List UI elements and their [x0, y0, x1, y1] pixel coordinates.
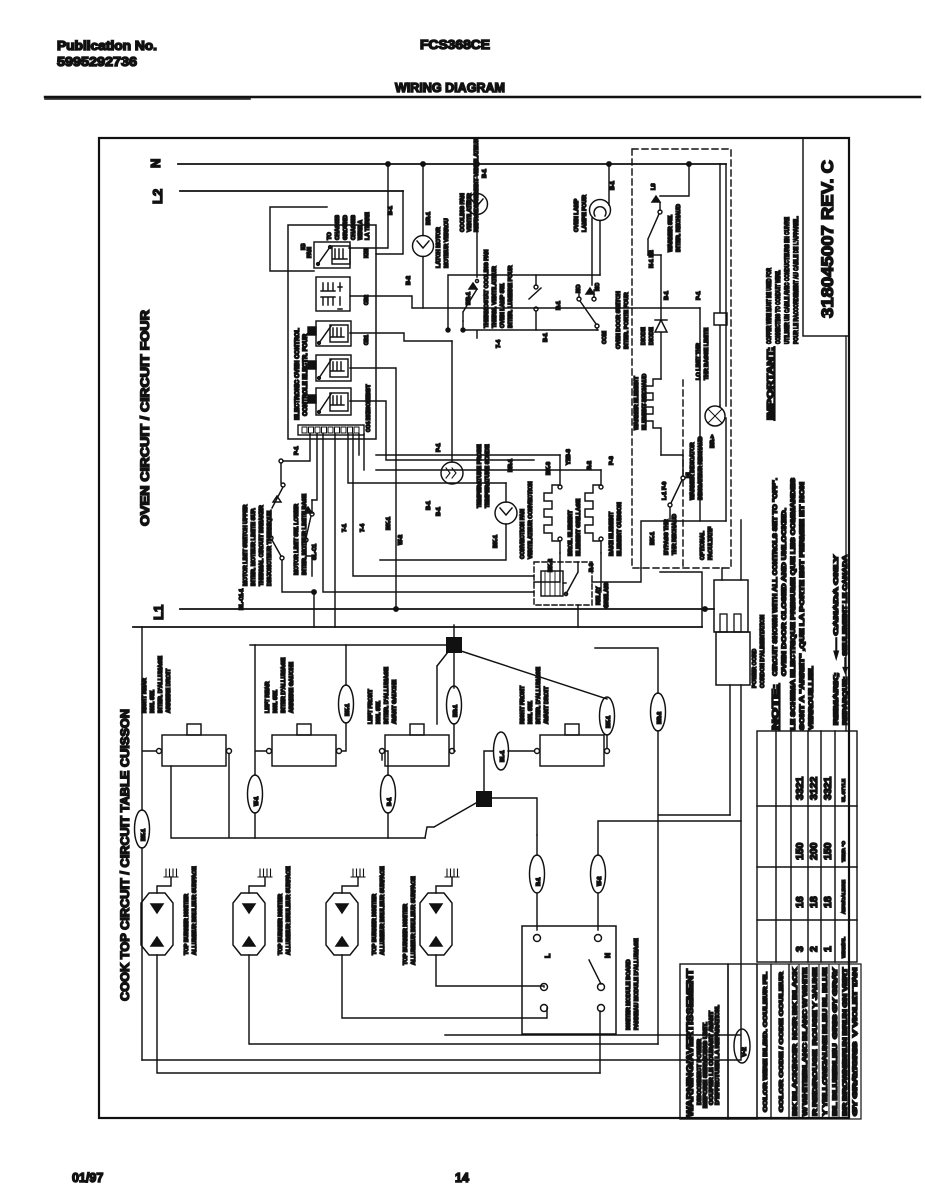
label: THERMOSTAT COOLING FAN [466, 250, 514, 328]
wire: BR-2 legs [595, 648, 730, 1044]
svg-text:✱RELAIS: ✱RELAIS [603, 583, 610, 608]
svg-text:CHASSIS: CHASSIS [335, 215, 341, 240]
svg-text:BL-1: BL-1 [500, 750, 506, 762]
svg-text:DIODE: DIODE [649, 327, 655, 345]
label: WARMER INDICATOR [690, 434, 716, 500]
svg-text:TEMPERATURE PROBE: TEMPERATURE PROBE [477, 444, 483, 508]
svg-text:CONNECTING TO CONDUIT WIRE.: CONNECTING TO CONDUIT WIRE. [775, 270, 782, 344]
svg-text:TOP BURNER IGNITER: TOP BURNER IGNITER [372, 894, 378, 955]
relay K3 in control [308, 355, 351, 381]
svg-text:P-1: P-1 [294, 446, 300, 455]
lo limit thermostat S5 [714, 164, 727, 406]
svg-text:01/97: 01/97 [72, 1171, 103, 1185]
svg-text:WIRING DIAGRAM: WIRING DIAGRAM [395, 80, 505, 95]
svg-text:OVEN DOOR SWITCH: OVEN DOOR SWITCH [616, 291, 622, 349]
oval tag BK-1 riser [339, 685, 354, 723]
electronic oven control U1 box [288, 225, 376, 439]
label: RELAY [596, 583, 610, 608]
svg-text:THERMAL CIRCUIT BREAKER: THERMAL CIRCUIT BREAKER [259, 505, 265, 586]
svg-text:ELEMENT RECHAUD: ELEMENT RECHAUD [642, 374, 648, 430]
svg-text:K3B: K3B [364, 248, 370, 258]
color code header cols [757, 964, 789, 1119]
wire: square B connections [425, 798, 537, 838]
svg-text:N: N [148, 159, 163, 168]
svg-text:P-1: P-1 [436, 443, 442, 452]
svg-text:BL-C1-1: BL-C1-1 [239, 589, 245, 610]
wire: N bus line [178, 163, 726, 165]
svg-text:INTER. D'ALLUMAGE: INTER. D'ALLUMAGE [536, 667, 542, 724]
convection fan M3 [380, 483, 517, 560]
svg-text:BK-1: BK-1 [493, 535, 499, 548]
svg-text:TEMPERATURE SONDE: TEMPERATURE SONDE [485, 444, 491, 508]
svg-text:REMARK; ◄— CANADA ONLY: REMARK; ◄— CANADA ONLY [833, 554, 840, 725]
wire: power cord left drop [729, 685, 731, 815]
svg-text:COLOR WIRE BL/BD. COULEUR FIL: COLOR WIRE BL/BD. COULEUR FIL [763, 971, 769, 1112]
border inner doubling line [845, 336, 847, 731]
svg-text:INTER. MOTEUR LIMITE BASE: INTER. MOTEUR LIMITE BASE [302, 494, 308, 575]
svg-text:SL-C1: SL-C1 [312, 544, 318, 560]
oval tag W-2 module N [591, 855, 606, 893]
svg-text:L8: L8 [651, 183, 657, 190]
wire: s12 right leg [454, 724, 455, 751]
svg-text:14: 14 [455, 1171, 469, 1185]
svg-text:IGNITER MODULE BOARD: IGNITER MODULE BOARD [626, 959, 632, 1030]
wire: lamp left drop [591, 218, 593, 275]
svg-text:LO LIMIT THR: LO LIMIT THR [696, 343, 702, 380]
oven door switch S3 [577, 285, 599, 330]
svg-text:CONVECTION FAN: CONVECTION FAN [520, 509, 526, 559]
svg-text:BK-1: BK-1 [345, 704, 351, 716]
diode D1 [648, 255, 667, 379]
wire: bake feed [376, 469, 601, 471]
label: MOTOR LIMIT SW LOWER [294, 494, 318, 575]
oval tag BK-1 s13 right [600, 697, 615, 735]
wire: K2 out to probe [350, 333, 452, 341]
wire: square A drop to oval [453, 653, 455, 688]
svg-text:RIGHT FRONT: RIGHT FRONT [520, 685, 526, 724]
label: WARMER ELEMENT [634, 374, 648, 430]
control board pin labels [301, 243, 372, 432]
label: LATCH MOTOR [426, 212, 450, 268]
oval tag W-1 s11 [248, 775, 263, 813]
color code table grid [789, 964, 861, 1119]
svg-text:LAMPE FOUR: LAMPE FOUR [582, 195, 588, 232]
svg-text:RIGHT REAR: RIGHT REAR [142, 678, 148, 713]
label: LEFT FRONT IGN SW [368, 667, 398, 724]
junction dot N/lamp [607, 162, 611, 166]
svg-text:150: 150 [822, 842, 834, 860]
svg-text:B-1: B-1 [436, 507, 442, 516]
wire: s10 left leg [142, 627, 156, 1060]
svg-text:ALLUMEUR BRULEUR SURFACE: ALLUMEUR BRULEUR SURFACE [411, 876, 417, 965]
svg-text:OVEN LAMP SW.: OVEN LAMP SW. [500, 283, 506, 328]
junction dot N/latch [421, 162, 425, 166]
svg-text:BR BROWN/BRUN BRUN GN VERT: BR BROWN/BRUN BRUN GN VERT [842, 966, 849, 1116]
svg-text:IGN. SW.: IGN. SW. [150, 689, 156, 713]
svg-text:OPTIONAL: OPTIONAL [700, 531, 706, 560]
svg-text:COOK TOP CIRCUIT / CIRCUIT TAB: COOK TOP CIRCUIT / CIRCUIT TABLE CUISSON [118, 709, 132, 1001]
svg-text:BK-1: BK-1 [606, 716, 612, 728]
svg-text:2: 2 [808, 946, 820, 952]
svg-text:OVEN CIRCUIT / CIRCUIT FOUR: OVEN CIRCUIT / CIRCUIT FOUR [138, 310, 152, 526]
svg-text:3321: 3321 [822, 776, 834, 800]
svg-text:BK-3: BK-3 [546, 462, 552, 475]
svg-text:HI: HI [686, 472, 692, 478]
svg-text:CHASSIS: CHASSIS [351, 215, 357, 240]
svg-text:LEFT FRONT: LEFT FRONT [368, 689, 374, 724]
svg-text:POUR LE RACCORDEMENT AU CABLE: POUR LE RACCORDEMENT AU CABLE DE L'APPAR… [793, 216, 800, 344]
svg-text:AVANT DROIT: AVANT DROIT [544, 686, 550, 724]
chassis ground E3 [351, 869, 365, 877]
svg-text:BK-1: BK-1 [650, 532, 656, 545]
svg-text:INTER. D'ALLUMAGE: INTER. D'ALLUMAGE [158, 656, 164, 713]
svg-text:OC4 BKESONUOGT: OC4 BKESONUOGT [366, 384, 372, 432]
junction dot N/fan [475, 162, 479, 166]
svg-text:K8: K8 [301, 243, 307, 250]
wire: door sw drop [448, 275, 536, 330]
svg-text:3321: 3321 [794, 776, 806, 800]
junction dot row330 [461, 328, 465, 332]
svg-text:Y YELLOW/JAUNE BLEU BL BLUE: Y YELLOW/JAUNE BLEU BL BLUE [822, 967, 829, 1116]
color code table entries [792, 966, 859, 1116]
wire: L2 bus line [180, 190, 403, 192]
svg-text:IGN. SW.: IGN. SW. [273, 689, 279, 713]
svg-text:VENTILATEUR CONVECTION: VENTILATEUR CONVECTION [528, 481, 534, 559]
svg-text:COLOR CODE / CODE COULEUR: COLOR CODE / CODE COULEUR [779, 971, 785, 1112]
label: RIGHT REAR IGN SW [142, 656, 172, 713]
wire table numbers col1 [794, 776, 834, 952]
junction dot L1 right [703, 607, 707, 611]
igniter E4 [420, 877, 452, 955]
svg-text:IMPORTANT:: IMPORTANT: [765, 347, 775, 420]
svg-text:BK-1: BK-1 [386, 517, 392, 530]
junction dot N/warmer [687, 162, 691, 166]
wire: square A riser [453, 625, 455, 637]
label: IMPORTANT note block [765, 216, 800, 420]
svg-text:WIRE/FIL: WIRE/FIL [841, 937, 847, 958]
svg-text:CB1: CB1 [364, 335, 370, 345]
chassis ground E2 [258, 869, 272, 877]
relay K1 in control [307, 242, 350, 268]
connector strip P1 of control [298, 425, 364, 435]
svg-text:WARMER SW.: WARMER SW. [668, 214, 674, 252]
svg-text:INTER. MOTEUR LIMITE SUP.: INTER. MOTEUR LIMITE SUP. [251, 508, 257, 586]
wire gauge table [757, 731, 857, 962]
svg-text:B-2: B-2 [406, 276, 412, 285]
svg-text:ARRIERE GAUCHE: ARRIERE GAUCHE [289, 662, 295, 713]
svg-text:B-1: B-1 [543, 333, 549, 342]
svg-text:THERMOSTAT COOLING FAN: THERMOSTAT COOLING FAN [484, 250, 490, 328]
power cord connector [714, 520, 750, 685]
warmer switch S4 [648, 164, 689, 255]
svg-text:DIODE: DIODE [641, 327, 647, 345]
svg-text:18: 18 [822, 896, 834, 908]
thermostat switch S1 cooling fan [463, 280, 479, 322]
svg-text:7-4: 7-4 [496, 339, 502, 348]
motor limit switches block [269, 459, 316, 627]
svg-text:SONT A "ARRET" ,QUE LA PORTE E: SONT A "ARRET" ,QUE LA PORTE EST FERMEE … [799, 481, 806, 730]
oval tag B-1 s12 [381, 775, 396, 813]
svg-text:TOP BURNER IGNITER: TOP BURNER IGNITER [184, 894, 190, 955]
svg-text:GROUND: GROUND [343, 215, 349, 240]
wire: s11 left leg [255, 645, 266, 838]
label: BAKE ELEMENT [587, 461, 623, 572]
svg-text:V-2: V-2 [741, 1047, 748, 1057]
svg-text:B-1: B-1 [664, 291, 670, 300]
svg-text:REFROIDISSEMENT VENTILATEUR: REFROIDISSEMENT VENTILATEUR [474, 138, 480, 232]
label: MOTOR LIMIT SWITCH UPPER [239, 446, 300, 610]
V-2 cell [728, 964, 757, 1119]
svg-text:B-1: B-1 [387, 798, 393, 806]
wire: L2 drop to control [376, 191, 403, 254]
svg-text:NOTE:: NOTE: [770, 684, 780, 730]
igniter E1 [141, 877, 173, 955]
svg-text:GY GRAY/GRIS V VIOLET TAN: GY GRAY/GRIS V VIOLET TAN [852, 967, 859, 1116]
label: OVEN LAMP [574, 181, 616, 232]
wire: T1 secondary out [350, 296, 700, 308]
svg-text:ELEMENT CUISSON: ELEMENT CUISSON [617, 502, 623, 556]
svg-text:AWG/CALIBRE: AWG/CALIBRE [841, 879, 847, 914]
label: OVEN DOOR SWITCH [543, 283, 630, 349]
wire: bus riser to relay area [660, 572, 702, 627]
wire: long bottom run [445, 1034, 740, 1036]
wire: s12 left leg [382, 751, 388, 838]
svg-text:W-1: W-1 [254, 796, 260, 806]
svg-text:200: 200 [808, 842, 820, 860]
header: publication number [57, 39, 157, 69]
wire: s13 left leg [484, 751, 534, 791]
svg-text:ALLUMEUR BRULEUR SURFACE: ALLUMEUR BRULEUR SURFACE [380, 866, 386, 955]
wire: s10 right leg [171, 754, 425, 838]
label: TOP BURNER IGNITER E3 [372, 866, 386, 955]
warning box [680, 964, 728, 1119]
wire: square A diag left [437, 652, 448, 724]
svg-text:ELECTRONIC OVEN CONTROL: ELECTRONIC OVEN CONTROL [294, 328, 301, 420]
svg-text:MOTOR LIMIT SWITCH UPPER: MOTOR LIMIT SWITCH UPPER [243, 505, 249, 586]
svg-text:ALLUMEUR BRULEUR SURFACE: ALLUMEUR BRULEUR SURFACE [192, 866, 198, 955]
relay K5 dashed box [534, 562, 592, 605]
svg-text:D'EFFECTUER LA REPARATION.: D'EFFECTUER LA REPARATION. [715, 1004, 721, 1105]
wire: E3 bottom [342, 955, 547, 1018]
svg-text:VENTILATEUR: VENTILATEUR [467, 193, 473, 232]
wire: L1 bus line [180, 608, 714, 610]
svg-text:COOLING FAN: COOLING FAN [460, 193, 466, 232]
burner switch S11 left rear [267, 724, 342, 766]
svg-text:COPPER WIRE MUST BE USED FOR: COPPER WIRE MUST BE USED FOR [766, 268, 773, 344]
box: 318045007 REV. C [803, 138, 849, 336]
wire: module L riser [536, 835, 538, 930]
label: TOP BURNER IGNITER E4 [403, 876, 417, 965]
svg-text:NO: NO [576, 284, 582, 293]
chassis ground E4 [445, 869, 459, 877]
label: OPTIONAL [700, 526, 714, 560]
svg-text:R-1: R-1 [536, 878, 542, 886]
svg-text:WARNING/AVERTISSEMENT: WARNING/AVERTISSEMENT [685, 968, 695, 1117]
svg-text:BK BLACK/NOIR NOIR BK BLACK: BK BLACK/NOIR NOIR BK BLACK [792, 967, 799, 1116]
burner switch S10 right rear [157, 724, 232, 766]
igniter E2 [233, 877, 265, 955]
svg-text:W-2: W-2 [597, 876, 603, 886]
label: DIODE [641, 291, 670, 345]
svg-text:NC: NC [595, 283, 601, 291]
svg-text:P-1: P-1 [696, 291, 702, 300]
label: LO LIMIT THR [696, 291, 710, 380]
svg-text:VERROUILLEE.: VERROUILLEE. [808, 666, 815, 730]
wire: N drop right [725, 164, 727, 406]
wire: relay to warmer [592, 568, 641, 582]
label: TOP BURNER IGNITER E2 [278, 866, 292, 955]
relay K4 in control [308, 388, 351, 415]
junction dot 448 [446, 328, 450, 332]
svg-text:B-1: B-1 [610, 181, 616, 190]
svg-text:BK-2: BK-2 [548, 559, 554, 572]
burner switch S12 left front [380, 724, 455, 766]
igniter E3 [326, 877, 358, 955]
svg-text:16: 16 [794, 896, 806, 908]
burner switch S13 right front [535, 724, 610, 766]
wire: breaker top row [283, 434, 310, 461]
wire: chassis ground run [270, 207, 327, 271]
main diagram border frame [99, 138, 849, 1118]
svg-text:3122: 3122 [808, 776, 820, 800]
svg-text:18: 18 [808, 896, 820, 908]
svg-text:B-1: B-1 [482, 169, 488, 178]
wire: s13 right leg [606, 735, 608, 748]
wire: K2/lamp row [463, 321, 598, 338]
svg-text:AVANT GAUCHE: AVANT GAUCHE [392, 680, 398, 724]
svg-text:BR-1: BR-1 [466, 292, 472, 305]
svg-text:REPARQUE: ◄— SEULEMENT LE CANA: REPARQUE: ◄— SEULEMENT LE CANADA [842, 554, 849, 725]
svg-text:BR-1: BR-1 [426, 212, 432, 225]
svg-text:R-2: R-2 [587, 461, 593, 470]
svg-text:TOP BURNER IGNITER: TOP BURNER IGNITER [403, 904, 409, 965]
svg-text:CIRCUIT SHOWN WITH ALL CONTROL: CIRCUIT SHOWN WITH ALL CONTROLS SET TO "… [772, 478, 779, 676]
svg-text:WIRE A: WIRE A [358, 220, 364, 240]
svg-text:1: 1 [822, 946, 834, 952]
wire: cook-top top run [250, 644, 446, 646]
svg-text:IGN. SW.: IGN. SW. [528, 700, 534, 724]
wire: warmer feed drop [699, 308, 701, 521]
wire: s11 right leg [342, 645, 346, 751]
svg-text:W WHITE/BLANC BLANC W WHITE: W WHITE/BLANC BLANC W WHITE [802, 967, 809, 1116]
svg-text:318045007 REV. C: 318045007 REV. C [818, 160, 837, 318]
wire: power cord right drop [142, 685, 741, 1060]
svg-text:INDICATEUR RECHAUD: INDICATEUR RECHAUD [698, 436, 704, 500]
svg-text:FCS368CE: FCS368CE [420, 37, 490, 52]
label: TEMPERATURE PROBE [436, 443, 491, 516]
svg-text:ALLUMEUR BRULEUR SURFACE: ALLUMEUR BRULEUR SURFACE [286, 866, 292, 955]
label: POWER CORD [752, 615, 766, 688]
label: BROIL ELEMENT [546, 462, 582, 572]
svg-text:L-1 F-0: L-1 F-0 [662, 482, 668, 500]
svg-text:P-3: P-3 [609, 456, 615, 465]
svg-text:Publication No.: Publication No. [57, 39, 157, 53]
svg-text:BROIL ELEMENT: BROIL ELEMENT [568, 510, 574, 556]
svg-text:FAN: FAN [307, 247, 313, 258]
label: COOLING FAN [460, 138, 488, 232]
wire: module right bottom leg [599, 1011, 601, 1073]
svg-text:OVEN LAMP: OVEN LAMP [574, 198, 580, 232]
svg-text:COM: COM [602, 331, 608, 344]
svg-text:RELAY: RELAY [596, 586, 602, 605]
svg-text:INTER. D'ALLUMAGE: INTER. D'ALLUMAGE [384, 667, 390, 724]
svg-text:BAKE ELEMENT: BAKE ELEMENT [609, 511, 615, 556]
label: CONVECTION FAN [493, 459, 534, 559]
svg-text:BR->: BR-> [710, 434, 716, 448]
svg-text:THR BASSE LIMITE: THR BASSE LIMITE [704, 328, 710, 380]
svg-text:LE SCHEMA ELECTRIQUE PRESUME Q: LE SCHEMA ELECTRIQUE PRESUME QUE LES COM… [790, 478, 797, 730]
svg-text:N: N [605, 953, 612, 958]
label: RIGHT FRONT IGN SW [520, 667, 550, 724]
label: wire tags 7-1 7-4 [342, 206, 615, 545]
wire: K1 coil to N [349, 164, 388, 248]
svg-text:INTER. RECHAUD: INTER. RECHAUD [676, 204, 682, 252]
svg-text:N-1 H2: N-1 H2 [649, 250, 655, 268]
svg-text:THR RECHAUD: THR RECHAUD [672, 514, 678, 555]
svg-text:FACULTATIF: FACULTATIF [708, 526, 714, 560]
svg-text:MOTEUR VERROU: MOTEUR VERROU [444, 218, 450, 268]
cooling fan motor M2 [467, 164, 488, 277]
svg-text:BK-1: BK-1 [141, 829, 147, 841]
svg-text:INTER D'ALLUMAGE: INTER D'ALLUMAGE [281, 657, 287, 713]
svg-text:B-1: B-1 [426, 501, 432, 510]
relay K2 in control [308, 321, 351, 346]
dashed inner divider [682, 380, 684, 568]
svg-text:BR-1: BR-1 [453, 705, 459, 717]
latch motor M1 [413, 164, 434, 308]
broil element R1 [534, 455, 562, 582]
svg-text:L1: L1 [151, 605, 166, 620]
svg-text:7-4: 7-4 [360, 523, 366, 532]
wire table headers [841, 778, 847, 958]
svg-text:ELEMENT GRILLAGE: ELEMENT GRILLAGE [576, 499, 582, 556]
label: WARNING/AVERTISSEMENT [685, 968, 721, 1117]
svg-text:5995292736: 5995292736 [57, 55, 137, 69]
svg-text:B-1: B-1 [388, 206, 394, 215]
oval tag BK-1 s10 [135, 810, 150, 848]
svg-text:DISJONCTEUR THERMIQUE: DISJONCTEUR THERMIQUE [267, 511, 273, 586]
junction square B [476, 791, 492, 807]
oval tag R-1 module L [530, 855, 545, 893]
svg-text:L: L [545, 953, 552, 958]
wire: E2 bottom [249, 955, 658, 1044]
oval tag BR-1 s12 right [447, 686, 462, 724]
svg-text:TO: TO [327, 232, 333, 240]
chassis ground labels [327, 212, 371, 240]
wire: square A diag right to BK-1 [461, 651, 607, 699]
junction dot N/K1 [386, 162, 390, 166]
svg-text:3: 3 [794, 946, 806, 952]
svg-text:UTILISER UN CABLE AVEC CONDUCT: UTILISER UN CABLE AVEC CONDUCTEURS EN CU… [784, 217, 791, 344]
igniter module board [522, 926, 616, 1034]
label: LEFT REAR IGN SW [265, 657, 295, 713]
svg-text:IGN. SW.: IGN. SW. [376, 700, 382, 724]
svg-text:PANNEAU MODULE D'ALLUMAGE: PANNEAU MODULE D'ALLUMAGE [634, 938, 640, 1030]
junction dot K3/L1 [394, 607, 398, 611]
svg-text:R-1: R-1 [556, 301, 562, 310]
svg-text:BYPASS THR: BYPASS THR [664, 519, 670, 555]
svg-text:INTER. PORTE FOUR: INTER. PORTE FOUR [624, 292, 630, 349]
wire: E1 bottom [157, 955, 600, 1073]
wire: relay drop to bus [577, 605, 579, 627]
svg-text:Y2B-3: Y2B-3 [566, 449, 572, 465]
wire: K4 out down [350, 401, 534, 460]
label: WARMER SW top [649, 183, 682, 268]
svg-text:TOP BURNER IGNITER: TOP BURNER IGNITER [278, 894, 284, 955]
svg-text:LEFT REAR: LEFT REAR [265, 682, 271, 713]
warmer indicator DS2 [705, 406, 726, 521]
wires: control connector drops [312, 434, 317, 500]
